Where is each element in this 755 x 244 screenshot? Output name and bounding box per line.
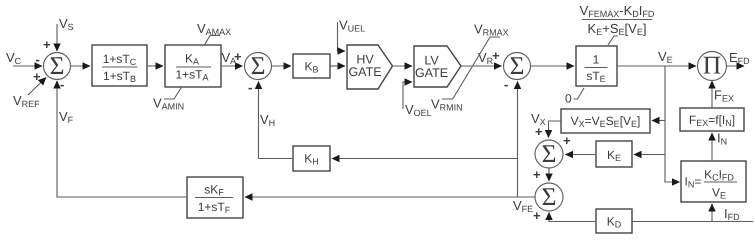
node VREF input label (13, 93, 40, 109)
svg-text:Π: Π (703, 51, 721, 80)
svg-text:Σ: Σ (542, 139, 557, 168)
wire VUEL into HV gate (338, 22, 346, 51)
wire FEX to multiplier (712, 81, 734, 108)
svg-text:-: - (60, 77, 64, 92)
node VS input label (59, 16, 74, 32)
wire VA from KA to summer S2 (221, 49, 243, 66)
wire S2 to block KB (272, 65, 292, 67)
svg-text:-: - (36, 52, 40, 67)
svg-text:+: + (33, 69, 41, 84)
wire VFE tap to KH block (332, 158, 518, 160)
svg-text:Σ: Σ (50, 51, 65, 80)
svg-text:1: 1 (593, 53, 600, 67)
wire S3 to integrator TE (531, 65, 575, 67)
node VFEMAX limit fraction label (580, 3, 655, 45)
wire VC into summer S1 (13, 52, 42, 67)
block TE integrator 1/sTE (576, 46, 617, 86)
block SKF washout sKF/(1+sTF) (187, 177, 243, 218)
wire VE tap to VX block (652, 120, 665, 122)
svg-text:+: + (492, 48, 500, 63)
wire VR from LV gate to summer S3 (461, 48, 502, 66)
block KB (293, 54, 330, 78)
LV gate (414, 46, 461, 87)
wire VE tap to KE block (634, 154, 665, 156)
svg-text:0: 0 (565, 92, 572, 106)
summing junction S5 (533, 182, 563, 223)
wire VREF into summer S1 (28, 69, 46, 95)
VR limit slash (442, 37, 500, 99)
svg-text:+: + (563, 133, 571, 148)
summing junction S3 (504, 51, 531, 92)
wire IFD input line (632, 206, 753, 222)
block IN = KC IFD / VE (681, 161, 746, 202)
summing junction S4 (535, 139, 563, 168)
block KD (596, 209, 632, 233)
svg-text:+: + (43, 37, 51, 52)
wire VFE from S5 to SKF block (245, 197, 535, 214)
wire VX block to summer S4 (531, 111, 561, 139)
summing junction S2 (245, 51, 272, 95)
node VAMAX limit label (197, 21, 231, 45)
wire VFE branch up to S3 minus input (517, 82, 519, 198)
svg-text:Σ: Σ (510, 51, 525, 80)
block TB lead-lag (1+sTC)/(1+sTB) (92, 45, 147, 86)
wire IFD branch up to IN block (711, 204, 713, 222)
block KH (293, 146, 330, 171)
HV gate (347, 45, 393, 89)
wire VOEL into LV gate (403, 82, 412, 109)
node VRMIN limit label (431, 97, 463, 113)
wire IN to FEX (712, 131, 727, 162)
summing junction S1 (44, 51, 71, 92)
svg-text:+: + (234, 49, 242, 64)
svg-text:GATE: GATE (348, 65, 381, 79)
svg-text:GATE: GATE (415, 66, 448, 80)
block FEX rectifier FEX=f[IN] (680, 108, 744, 131)
block VX saturation VX=VE SE[VE] (561, 109, 650, 133)
node zero lower limit label (565, 88, 584, 106)
node VC input label (6, 50, 22, 66)
wire VE from TE to multiplier (617, 49, 696, 66)
node VAMIN limit label (153, 87, 184, 112)
wire KD to summer S5 (549, 213, 596, 222)
wire S1 to block TB (71, 65, 91, 67)
svg-text:Σ: Σ (542, 182, 557, 211)
multiplier PI (698, 51, 727, 81)
wire S4 to summer S5 (533, 167, 549, 182)
block KA regulator KA/(1+sTA) (165, 45, 221, 87)
svg-text:-: - (504, 77, 508, 92)
svg-text:Σ: Σ (251, 51, 266, 80)
wire HV gate to LV gate (393, 65, 413, 67)
wire VE branch down (665, 66, 680, 182)
wire VH from KH to summer S2 (259, 82, 294, 159)
svg-text:+: + (533, 167, 541, 182)
svg-text:-: - (248, 80, 252, 95)
wire VF from SKF to summer S1 (57, 81, 187, 197)
wire KB to HV gate (330, 65, 345, 67)
wire EFD output (727, 50, 751, 66)
wire KE to summer S4 (563, 133, 596, 155)
wire TB to block KA (147, 65, 163, 67)
svg-text:+: + (535, 124, 543, 139)
node VOEL input label (405, 102, 432, 118)
svg-text:+: + (533, 208, 541, 223)
block KE (596, 141, 632, 167)
node VRMAX limit label (474, 22, 509, 38)
node VUEL input label (339, 18, 365, 34)
wire VS into summer S1 (43, 24, 57, 52)
